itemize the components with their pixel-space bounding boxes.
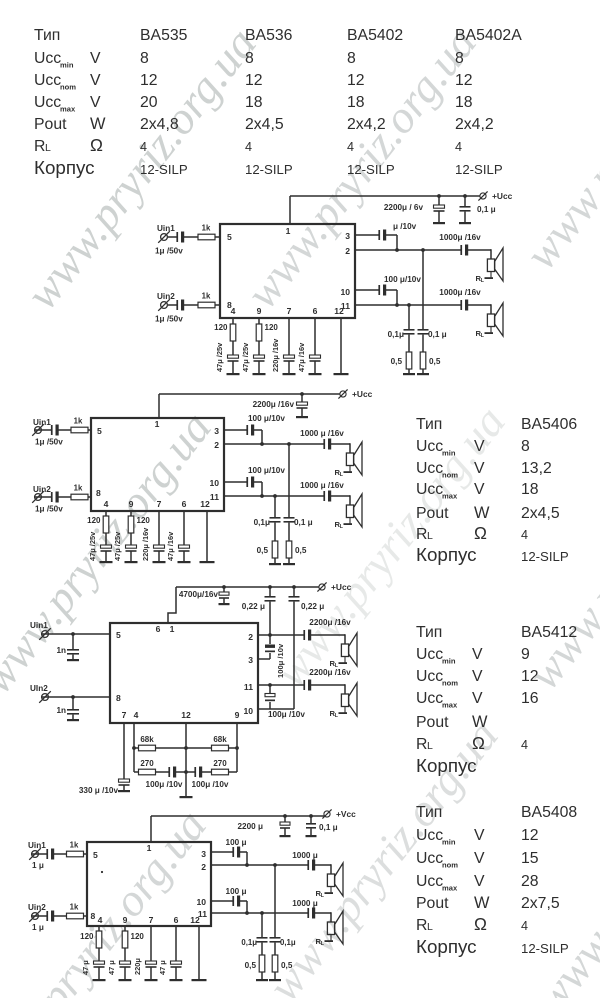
svg-text:nom: nom [442,471,458,480]
svg-text:4: 4 [455,140,462,154]
svg-text:1 μ: 1 μ [32,923,44,932]
svg-text:Uin1: Uin1 [157,224,175,233]
svg-text:120: 120 [131,932,145,941]
svg-text:Тип: Тип [34,27,60,44]
svg-text:0,1μ: 0,1μ [280,938,296,947]
svg-text:9: 9 [235,710,240,720]
svg-text:5: 5 [227,232,232,242]
svg-text:100μ /10v: 100μ /10v [146,780,183,789]
svg-text:3: 3 [345,231,350,241]
svg-text:BA5402: BA5402 [347,27,403,44]
svg-text:max: max [60,105,76,114]
svg-text:18: 18 [245,94,263,111]
svg-text:Ucc: Ucc [416,873,443,890]
svg-text:2: 2 [345,246,350,256]
svg-text:0,5: 0,5 [429,357,441,366]
svg-text:W: W [474,894,490,912]
svg-text:10: 10 [243,706,253,716]
svg-text:100 μ/10v: 100 μ/10v [248,414,285,423]
svg-text:Uin1: Uin1 [30,621,48,630]
svg-text:68k: 68k [140,735,154,744]
svg-text:0,1 μ: 0,1 μ [319,823,338,832]
svg-text:Корпус: Корпус [34,157,95,178]
svg-text:BA535: BA535 [140,27,188,44]
svg-text:W: W [472,713,488,731]
svg-text:Uin2: Uin2 [28,903,46,912]
svg-text:4: 4 [140,140,147,154]
svg-text:12: 12 [347,72,365,89]
svg-text:220μ: 220μ [133,958,142,975]
svg-text:4: 4 [521,919,528,933]
svg-text:1k: 1k [202,292,211,301]
svg-text:1: 1 [147,843,152,853]
svg-text:2x4,2: 2x4,2 [455,116,494,133]
svg-text:1n: 1n [56,706,66,715]
svg-text:1 μ: 1 μ [32,861,44,870]
svg-text:4: 4 [245,140,252,154]
svg-text:L: L [427,740,433,752]
svg-text:Uin1: Uin1 [33,418,51,427]
svg-text:100 μ/10v: 100 μ/10v [384,275,421,284]
svg-text:V: V [474,438,485,455]
svg-text:220μ /16v: 220μ /16v [271,338,280,372]
svg-text:2x4,5: 2x4,5 [245,116,284,133]
svg-text:BA536: BA536 [245,27,293,44]
svg-text:100 μ: 100 μ [226,887,247,896]
svg-text:100μ /10v: 100μ /10v [268,710,305,719]
svg-text:2x4,2: 2x4,2 [347,116,386,133]
svg-text:3: 3 [201,849,206,859]
svg-text:Тип: Тип [416,416,442,433]
svg-text:1: 1 [286,226,291,236]
svg-text:Pout: Pout [416,714,449,731]
svg-text:47μ /16v: 47μ /16v [297,342,306,372]
svg-text:7: 7 [287,306,292,316]
svg-text:120: 120 [87,516,101,525]
svg-text:9: 9 [521,646,530,663]
svg-text:20: 20 [140,94,158,111]
svg-text:1000μ /16v: 1000μ /16v [439,288,481,297]
svg-text:120: 120 [137,516,151,525]
svg-text:8: 8 [245,50,254,67]
svg-text:4: 4 [231,306,236,316]
svg-text:V: V [472,668,483,685]
svg-text:0,1 μ: 0,1 μ [428,330,447,339]
svg-text:0,5: 0,5 [245,961,257,970]
svg-text:12: 12 [190,915,200,925]
svg-text:0,22 μ: 0,22 μ [242,602,265,611]
svg-text:0,1μ: 0,1μ [254,518,270,527]
svg-text:12: 12 [245,72,263,89]
svg-text:+Ucc: +Ucc [352,389,373,399]
svg-text:1000 μ: 1000 μ [292,851,318,860]
svg-text:6: 6 [313,306,318,316]
svg-text:1k: 1k [74,484,83,493]
svg-text:R: R [416,917,427,934]
svg-text:Pout: Pout [416,895,449,912]
svg-text:10: 10 [340,287,350,297]
svg-text:Корпус: Корпус [416,936,477,957]
svg-text:330 μ /10v: 330 μ /10v [79,786,119,795]
svg-text:L: L [427,530,433,542]
svg-text:V: V [474,481,485,498]
svg-text:8: 8 [521,438,530,455]
svg-text:BA5406: BA5406 [521,416,577,433]
svg-text:V: V [90,50,101,67]
svg-text:Ucc: Ucc [416,827,443,844]
svg-text:47μ /25v: 47μ /25v [241,342,250,372]
svg-text:8: 8 [455,50,464,67]
svg-text:7: 7 [157,499,162,509]
svg-text:47μ /25v: 47μ /25v [88,531,97,561]
svg-text:12: 12 [521,668,539,685]
svg-text:6: 6 [182,499,187,509]
svg-text:4: 4 [347,140,354,154]
svg-text:0,1μ: 0,1μ [388,330,404,339]
svg-text:9: 9 [123,915,128,925]
svg-text:0,5: 0,5 [295,546,307,555]
svg-text:max: max [442,884,458,893]
svg-text:2: 2 [214,440,219,450]
svg-text:2: 2 [201,862,206,872]
svg-text:V: V [472,646,483,663]
svg-text:0,5: 0,5 [257,546,269,555]
svg-text:2200μ /16v: 2200μ /16v [309,618,351,627]
svg-text:4: 4 [134,710,139,720]
svg-text:V: V [90,72,101,89]
svg-text:Ω: Ω [472,733,485,753]
svg-text:1k: 1k [202,224,211,233]
svg-text:BA5408: BA5408 [521,804,577,821]
svg-text:V: V [472,690,483,707]
svg-text:max: max [442,492,458,501]
svg-text:68k: 68k [213,735,227,744]
svg-text:Ucc: Ucc [416,690,443,707]
svg-text:Тип: Тип [416,624,442,641]
svg-text:15: 15 [521,850,539,867]
svg-text:6: 6 [174,915,179,925]
svg-text:V: V [90,94,101,111]
svg-text:nom: nom [60,83,76,92]
svg-text:Ucc: Ucc [416,460,443,477]
svg-text:Ucc: Ucc [416,850,443,867]
svg-text:+Ucc: +Ucc [331,582,352,592]
svg-text:5: 5 [93,850,98,860]
svg-text:47 μ: 47 μ [107,960,116,975]
svg-text:nom: nom [442,679,458,688]
svg-text:L: L [427,921,433,933]
svg-text:1μ /50v: 1μ /50v [155,315,183,324]
svg-text:18: 18 [347,94,365,111]
svg-text:V: V [474,827,485,844]
svg-text:2200μ /16v: 2200μ /16v [253,400,295,409]
svg-text:1μ /50v: 1μ /50v [155,247,183,256]
svg-text:min: min [60,61,74,70]
svg-text:12: 12 [334,306,344,316]
svg-text:Тип: Тип [416,804,442,821]
svg-text:7: 7 [149,915,154,925]
svg-text:4: 4 [98,915,103,925]
svg-text:12-SILP: 12-SILP [455,162,503,177]
svg-text:5: 5 [97,426,102,436]
svg-text:max: max [442,701,458,710]
svg-text:2: 2 [248,632,253,642]
svg-text:W: W [474,504,490,522]
svg-text:12-SILP: 12-SILP [521,549,569,564]
svg-text:11: 11 [244,682,253,692]
svg-text:2x4,5: 2x4,5 [521,505,560,522]
svg-text:10: 10 [209,478,219,488]
svg-text:min: min [442,838,456,847]
svg-text:0,1 μ: 0,1 μ [294,518,313,527]
svg-text:+Ucc: +Ucc [492,191,513,201]
svg-text:8: 8 [91,911,96,921]
svg-text:0,5: 0,5 [391,357,403,366]
svg-text:12-SILP: 12-SILP [245,162,293,177]
svg-text:2200μ / 6v: 2200μ / 6v [384,203,424,212]
svg-text:Uin2: Uin2 [33,485,51,494]
svg-text:100μ /10v: 100μ /10v [276,643,285,678]
svg-text:Корпус: Корпус [416,755,477,776]
svg-text:4: 4 [521,528,528,542]
svg-text:1000 μ /16v: 1000 μ /16v [300,481,344,490]
svg-text:18: 18 [521,481,539,498]
svg-text:1000μ /16v: 1000μ /16v [439,233,481,242]
svg-text:0,5: 0,5 [281,961,293,970]
svg-text:1000 μ /16v: 1000 μ /16v [300,429,344,438]
svg-text:R: R [34,138,45,155]
svg-text:Ω: Ω [90,135,103,155]
svg-text:2x4,8: 2x4,8 [140,116,179,133]
svg-text:0,1μ: 0,1μ [241,938,257,947]
svg-text:120: 120 [80,932,94,941]
svg-text:BA5412: BA5412 [521,624,577,641]
svg-text:Ucc: Ucc [416,668,443,685]
svg-text:2200 μ: 2200 μ [238,822,264,831]
svg-text:1: 1 [155,419,160,429]
svg-text:220μ /16v: 220μ /16v [141,527,150,561]
svg-text:12-SILP: 12-SILP [140,162,188,177]
svg-text:9: 9 [257,306,262,316]
svg-text:7: 7 [122,710,127,720]
svg-text:1: 1 [170,624,175,634]
svg-text:Pout: Pout [416,505,449,522]
svg-text:12: 12 [140,72,158,89]
svg-text:Ucc: Ucc [416,438,443,455]
svg-text:3: 3 [248,655,253,665]
svg-text:4: 4 [521,738,528,752]
svg-text:5: 5 [116,630,121,640]
svg-text:28: 28 [521,873,539,890]
svg-text:16: 16 [521,690,539,707]
svg-text:100 μ: 100 μ [226,838,247,847]
svg-text:1n: 1n [56,646,66,655]
svg-text:12: 12 [181,710,191,720]
svg-text:120: 120 [265,323,279,332]
svg-text:μ /10v: μ /10v [393,222,417,231]
svg-text:8: 8 [347,50,356,67]
svg-text:V: V [474,873,485,890]
svg-text:8: 8 [140,50,149,67]
svg-text:min: min [442,449,456,458]
svg-text:12: 12 [200,499,210,509]
svg-text:W: W [90,115,106,133]
svg-text:+Vcc: +Vcc [336,809,356,819]
svg-text:18: 18 [455,94,473,111]
svg-text:9: 9 [129,499,134,509]
svg-text:Ucc: Ucc [416,481,443,498]
svg-text:Uin1: Uin1 [28,841,46,850]
svg-text:4700μ/16v: 4700μ/16v [179,590,219,599]
svg-text:270: 270 [140,759,154,768]
svg-text:12-SILP: 12-SILP [521,941,569,956]
svg-text:100 μ/10v: 100 μ/10v [248,466,285,475]
svg-text:4: 4 [104,499,109,509]
svg-text:BA5402A: BA5402A [455,27,522,44]
svg-text:120: 120 [214,323,228,332]
svg-text:47μ /25v: 47μ /25v [113,531,122,561]
svg-text:1k: 1k [70,841,79,850]
svg-text:47 μ: 47 μ [81,960,90,975]
svg-text:Ucc: Ucc [416,646,443,663]
svg-text:1μ /50v: 1μ /50v [35,438,63,447]
svg-text:1000 μ: 1000 μ [292,899,318,908]
svg-text:8: 8 [116,693,121,703]
svg-text:Pout: Pout [34,116,67,133]
svg-text:1μ /50v: 1μ /50v [35,505,63,514]
svg-text:2x7,5: 2x7,5 [521,895,560,912]
svg-text:47μ /16v: 47μ /16v [166,531,175,561]
svg-text:UIn2: UIn2 [30,684,48,693]
svg-text:L: L [45,142,51,154]
svg-text:Uin2: Uin2 [157,292,175,301]
svg-text:2200μ /16v: 2200μ /16v [309,668,351,677]
svg-text:47μ /25v: 47μ /25v [215,342,224,372]
svg-text:8: 8 [96,488,101,498]
svg-text:R: R [416,526,427,543]
svg-text:12: 12 [455,72,473,89]
svg-text:3: 3 [214,426,219,436]
svg-text:10: 10 [196,897,206,907]
svg-text:0,1 μ: 0,1 μ [477,205,496,214]
svg-text:1k: 1k [74,417,83,426]
svg-text:R: R [416,736,427,753]
svg-text:6: 6 [156,624,161,634]
svg-text:11: 11 [210,492,219,502]
svg-text:270: 270 [213,759,227,768]
svg-text:nom: nom [442,861,458,870]
svg-text:12-SILP: 12-SILP [347,162,395,177]
svg-text:Ucc: Ucc [34,94,61,111]
svg-text:13,2: 13,2 [521,460,552,477]
svg-text:0,22 μ: 0,22 μ [301,602,324,611]
svg-text:Ω: Ω [474,523,487,543]
svg-text:min: min [442,657,456,666]
svg-text:V: V [474,850,485,867]
svg-text:Ucc: Ucc [34,50,61,67]
svg-text:47 μ: 47 μ [158,960,167,975]
svg-text:Ucc: Ucc [34,72,61,89]
svg-text:Корпус: Корпус [416,544,477,565]
svg-text:12: 12 [521,827,539,844]
svg-text:100μ /10v: 100μ /10v [192,780,229,789]
svg-text:Ω: Ω [474,914,487,934]
svg-text:V: V [474,460,485,477]
svg-text:1k: 1k [70,903,79,912]
